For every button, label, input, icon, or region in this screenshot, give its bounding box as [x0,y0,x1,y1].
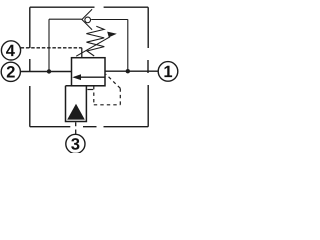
pilot drop wire [81,48,83,58]
port 2 circle [1,62,20,81]
poppet triangle [67,104,85,120]
pilot wire right horizontal [91,19,128,21]
pilot wire right vertical [127,19,129,71]
port 1 wire [105,70,158,72]
valve body [72,58,106,86]
node junction on port 1 wire [126,69,130,73]
poppet seat box [66,86,106,122]
adjustment arrow [76,32,117,57]
pilot wire left vertical [48,19,50,71]
pilot passage dash to spring chamber [87,89,93,91]
node junction on port 2 wire [47,69,51,73]
port 3 dashed wire [75,122,77,134]
port 2 wire [20,71,71,73]
pilot relief seat [82,9,92,29]
port 4 circle [1,41,20,60]
port 3 circle [66,134,85,153]
spring [86,26,104,56]
boundary left edge [29,7,31,127]
flow arrow [72,74,105,80]
pilot wire top horizontal [49,18,82,20]
boundary right edge [147,7,149,127]
boundary bottom edge [30,126,148,128]
pilot passage dashed box [94,74,121,105]
pilot relief ball [85,17,91,23]
port 4 dashed vent line [21,47,82,49]
boundary top edge [30,6,148,8]
port 1 circle [158,62,178,82]
